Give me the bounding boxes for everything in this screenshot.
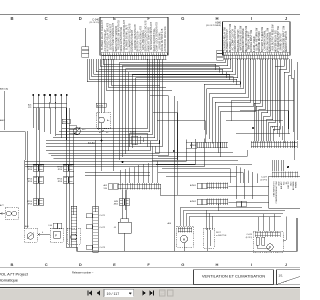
svg-text:COMP LOCK SENSOR A7B: COMP LOCK SENSOR A7B bbox=[156, 22, 159, 52]
U3 rotated pin-name labels bbox=[223, 23, 288, 52]
svg-text:A7B02: A7B02 bbox=[190, 200, 197, 203]
C-027 pin comb bbox=[272, 173, 298, 177]
connector pair above M3 bbox=[237, 201, 242, 207]
ground bus bbox=[77, 218, 297, 251]
title box VENTILATION ET CLIMATISATION bbox=[194, 270, 274, 285]
lower bus with right corners bbox=[25, 139, 204, 167]
svg-text:CAN LOW SIGNAL: CAN LOW SIGNAL bbox=[142, 29, 145, 50]
svg-text:WATER TEMP SENSOR: WATER TEMP SENSOR bbox=[115, 26, 118, 52]
svg-text:PP06: PP06 bbox=[63, 122, 68, 124]
svg-text:A080: A080 bbox=[215, 22, 221, 25]
compressor clutch M2 symbol bbox=[24, 228, 37, 242]
svg-text:FRESH/REC ACTUATOR A7B: FRESH/REC ACTUATOR A7B bbox=[123, 20, 126, 52]
wires down to K9 bbox=[122, 196, 124, 205]
toolbar last-page button bbox=[149, 290, 152, 295]
control box C-027 outline bbox=[269, 176, 301, 208]
svg-text:Release-number –: Release-number – bbox=[72, 271, 94, 275]
svg-text:J: J bbox=[285, 262, 287, 267]
svg-text:C-027: C-027 bbox=[261, 177, 268, 179]
blower resistor symbol bbox=[74, 128, 81, 135]
svg-text:EVAP TEMP SENSOR A7B: EVAP TEMP SENSOR A7B bbox=[112, 23, 115, 52]
horizontal feeds into C-027 zone bbox=[160, 194, 268, 196]
svg-text:AB01 (A): AB01 (A) bbox=[0, 88, 8, 91]
WOT relay bbox=[203, 228, 214, 248]
svg-text:C: C bbox=[45, 16, 48, 21]
actuator strip V2 bbox=[93, 206, 99, 252]
connector pair small above P box bbox=[53, 223, 57, 229]
svg-text:HEATER RELAY SIG: HEATER RELAY SIG bbox=[274, 30, 277, 52]
svg-text:B: B bbox=[10, 16, 13, 21]
svg-text:19 / 117: 19 / 117 bbox=[107, 292, 120, 296]
left-turning wire mesh from U3 upper bbox=[119, 59, 238, 160]
toolbar prev-page button bbox=[97, 290, 100, 295]
toolbar disabled icon 1 bbox=[160, 290, 166, 296]
svg-text:WATER VALVE SIG SW: WATER VALVE SIG SW bbox=[239, 25, 242, 51]
svg-text:P: P bbox=[55, 234, 57, 238]
svg-text:A/C CLUTCH RELAY: A/C CLUTCH RELAY bbox=[104, 29, 107, 52]
ECU block U3 outline bbox=[223, 22, 291, 55]
wires y171 bbox=[85, 171, 150, 173]
svg-text:G: G bbox=[181, 16, 184, 21]
svg-text:H: H bbox=[216, 262, 219, 267]
svg-text:A7B01: A7B01 bbox=[190, 184, 197, 187]
svg-text:HI SPEED RELAY SIG A7B: HI SPEED RELAY SIG A7B bbox=[107, 23, 110, 52]
svg-text:DEFROST SWITCH: DEFROST SWITCH bbox=[286, 31, 288, 52]
toolbar next-page button bbox=[142, 290, 145, 295]
U1 pin tick comb bbox=[102, 56, 167, 60]
actuator strip V1 bbox=[71, 206, 77, 247]
svg-text:1/1: 1/1 bbox=[279, 273, 284, 277]
toolbar page field bbox=[104, 289, 134, 297]
svg-text:E: E bbox=[113, 262, 116, 267]
svg-text:GROUND RETURN A7B: GROUND RETURN A7B bbox=[134, 24, 137, 50]
svg-text:(4 OF 9): (4 OF 9) bbox=[260, 179, 267, 181]
svg-text:F: F bbox=[147, 16, 150, 21]
svg-text:CAN HIGH SIGNAL A7B: CAN HIGH SIGNAL A7B bbox=[139, 26, 142, 52]
svg-text:COND FAN OUTPUT SW: COND FAN OUTPUT SW bbox=[234, 25, 237, 52]
svg-text:SUN SENSOR INPUT A7B: SUN SENSOR INPUT A7B bbox=[150, 22, 153, 50]
wires through X2 bbox=[121, 160, 158, 200]
left-turning wire mesh from U3 mid bbox=[204, 59, 256, 157]
svg-text:BATTERY B+ FEED SW: BATTERY B+ FEED SW bbox=[261, 26, 264, 52]
sensor D1 dashed enclosure bbox=[97, 113, 111, 129]
svg-text:BATTERY FEED B+: BATTERY FEED B+ bbox=[137, 30, 140, 52]
svg-text:A7B05: A7B05 bbox=[130, 131, 137, 134]
svg-text:C-073: C-073 bbox=[100, 247, 106, 249]
comb connector X3 bbox=[251, 142, 297, 147]
svg-text:AMBIENT TEMP SENS: AMBIENT TEMP SENS bbox=[147, 27, 150, 52]
U3 pin number row bbox=[224, 52, 290, 55]
svg-text:(20 OF POWER): (20 OF POWER) bbox=[206, 25, 221, 27]
wires from U3 down to comb C3 bbox=[254, 59, 280, 142]
junction dots bbox=[173, 150, 175, 152]
aux motor M3 with resistor pack bbox=[253, 232, 283, 253]
vertical drops from mesh to P7 P8 combs bbox=[236, 166, 257, 199]
svg-text:SPARE OUTPUT A7B: SPARE OUTPUT A7B bbox=[161, 28, 164, 51]
svg-text:BLOWER SIGNAL OUT: BLOWER SIGNAL OUT bbox=[126, 25, 129, 50]
svg-text:AUX OUTPUT FEED SW: AUX OUTPUT FEED SW bbox=[272, 24, 275, 51]
secondary band from U1 mid pins bbox=[106, 59, 172, 90]
stacked boxes below PP06 bbox=[69, 126, 77, 130]
toolbar disabled icon 2 bbox=[168, 290, 174, 296]
right edge wire bbox=[297, 62, 299, 140]
svg-text:WOT: WOT bbox=[216, 232, 221, 234]
svg-text:I: I bbox=[251, 16, 252, 21]
comb connector X1 bbox=[33, 103, 67, 108]
pressure switch S1 bbox=[5, 208, 18, 220]
U1 rotated pin-name labels bbox=[101, 20, 167, 52]
harness verticals left bbox=[24, 160, 26, 228]
long vertical wires from U1 bbox=[98, 59, 100, 130]
svg-text:(11 OF 19): (11 OF 19) bbox=[89, 22, 99, 24]
harness vertical to ground bus bbox=[173, 96, 175, 251]
wires into connector of box C-027 bbox=[272, 126, 285, 171]
U1 pin number row bbox=[101, 52, 167, 55]
U3 pin tick comb bbox=[224, 55, 289, 59]
svg-text:A7B 05: A7B 05 bbox=[97, 105, 103, 108]
viewer toolbar background bbox=[0, 287, 300, 300]
svg-text:C-06: C-06 bbox=[48, 225, 52, 227]
svg-text:A7B: A7B bbox=[114, 200, 118, 203]
small box PP06 near X1 bbox=[62, 119, 70, 124]
svg-text:or SHUTTLE: or SHUTTLE bbox=[216, 235, 227, 237]
svg-text:LOVOL A7T Project: LOVOL A7T Project bbox=[0, 271, 29, 276]
small box D05 bbox=[96, 103, 106, 107]
svg-text:PRESSURE SW INPUT A7B: PRESSURE SW INPUT A7B bbox=[118, 20, 121, 50]
svg-text:automatique: automatique bbox=[0, 278, 19, 283]
connector stack left of U3 bbox=[217, 50, 224, 53]
svg-text:VENTILATION ET CLIMATISATION: VENTILATION ET CLIMATISATION bbox=[202, 273, 265, 278]
wires through P6 bbox=[122, 190, 124, 210]
connector C-040 stack bbox=[84, 28, 86, 47]
ECU block U1 outline bbox=[100, 17, 168, 55]
top border rule of schematic sheet bbox=[0, 14, 300, 16]
drops from distribution bus to components bbox=[180, 208, 275, 232]
bottom column letters B-J bbox=[11, 262, 288, 267]
svg-text:C-072: C-072 bbox=[100, 227, 106, 229]
svg-text:D: D bbox=[79, 16, 82, 21]
svg-text:CAN LOW SIGNAL SW: CAN LOW SIGNAL SW bbox=[266, 27, 269, 52]
relay K5 box bbox=[129, 134, 148, 147]
svg-text:CAN HIGH SIGNAL: CAN HIGH SIGNAL bbox=[264, 29, 267, 50]
terminal dots above X1 bbox=[32, 94, 67, 96]
svg-text:BLOWER RELAY FEED A7B: BLOWER RELAY FEED A7B bbox=[101, 20, 104, 50]
svg-text:IGN FEED RELAY SW: IGN FEED RELAY SW bbox=[223, 27, 226, 51]
svg-text:IGN SWITCH INPUT: IGN SWITCH INPUT bbox=[132, 29, 134, 51]
C-027 rotated labels bbox=[273, 181, 298, 204]
drop wires from U1 feeding middle bus bbox=[46, 59, 162, 147]
svg-text:C-040: C-040 bbox=[92, 19, 99, 22]
mid-right filler bus bbox=[155, 152, 233, 154]
blower motor M1 bbox=[177, 226, 194, 247]
svg-text:I: I bbox=[251, 262, 252, 267]
svg-text:B: B bbox=[11, 262, 14, 267]
solenoid valve K9 bbox=[118, 222, 131, 233]
svg-text:MODE ACTUATOR SIG: MODE ACTUATOR SIG bbox=[120, 27, 123, 52]
toolbar first-page button bbox=[89, 290, 92, 295]
svg-text:H: H bbox=[215, 16, 218, 21]
top column letters B-J bbox=[10, 16, 287, 21]
pressure sensor P box bbox=[50, 228, 63, 242]
right side filler mesh bbox=[231, 100, 294, 102]
svg-text:TEMP DIAL INPUT: TEMP DIAL INPUT bbox=[248, 30, 251, 50]
bottom border rule bbox=[0, 266, 300, 268]
svg-text:D: D bbox=[79, 262, 82, 267]
stepped wires center bbox=[150, 96, 168, 151]
svg-text:B01 A02: B01 A02 bbox=[88, 142, 95, 145]
lower distribution bus bbox=[180, 208, 285, 217]
svg-text:C-025: C-025 bbox=[247, 234, 253, 236]
svg-text:SENSOR GROUND RET: SENSOR GROUND RET bbox=[110, 23, 112, 50]
svg-text:C: C bbox=[45, 262, 48, 267]
svg-text:SERVO FEEDBACK SIG A7B: SERVO FEEDBACK SIG A7B bbox=[145, 20, 148, 51]
wires above bottom-left strips bbox=[73, 130, 75, 215]
wires right of U3 routing down bbox=[275, 59, 293, 132]
svg-text:SPARE OUTPUT: SPARE OUTPUT bbox=[280, 32, 283, 50]
svg-text:G: G bbox=[181, 262, 184, 267]
svg-text:ILLUMINATION FEED A7B: ILLUMINATION FEED A7B bbox=[128, 23, 131, 51]
title block bottom rule bbox=[0, 284, 300, 286]
svg-text:A/C COMP CLUTCH: A/C COMP CLUTCH bbox=[231, 29, 234, 51]
svg-text:SPARE: SPARE bbox=[295, 181, 298, 188]
svg-text:LIN BUS SIGNAL: LIN BUS SIGNAL bbox=[158, 31, 161, 50]
wires through X1 bbox=[33, 96, 67, 141]
wire band from U1 left pins bbox=[87, 59, 240, 88]
svg-text:(4 OF 9): (4 OF 9) bbox=[246, 237, 253, 239]
thermistor symbol bbox=[99, 130, 104, 133]
svg-text:C-071: C-071 bbox=[100, 215, 106, 217]
svg-text:FAN DIAL INPUT SW: FAN DIAL INPUT SW bbox=[250, 29, 253, 52]
svg-text:ACTUATOR DRIVE SIG: ACTUATOR DRIVE SIG bbox=[164, 26, 167, 51]
sheet index box 1/1 bbox=[277, 270, 301, 285]
svg-text:E: E bbox=[113, 16, 116, 21]
svg-text:REAR DEFROST REL: REAR DEFROST REL bbox=[153, 27, 156, 51]
junction dot above C-027 bbox=[287, 166, 289, 168]
